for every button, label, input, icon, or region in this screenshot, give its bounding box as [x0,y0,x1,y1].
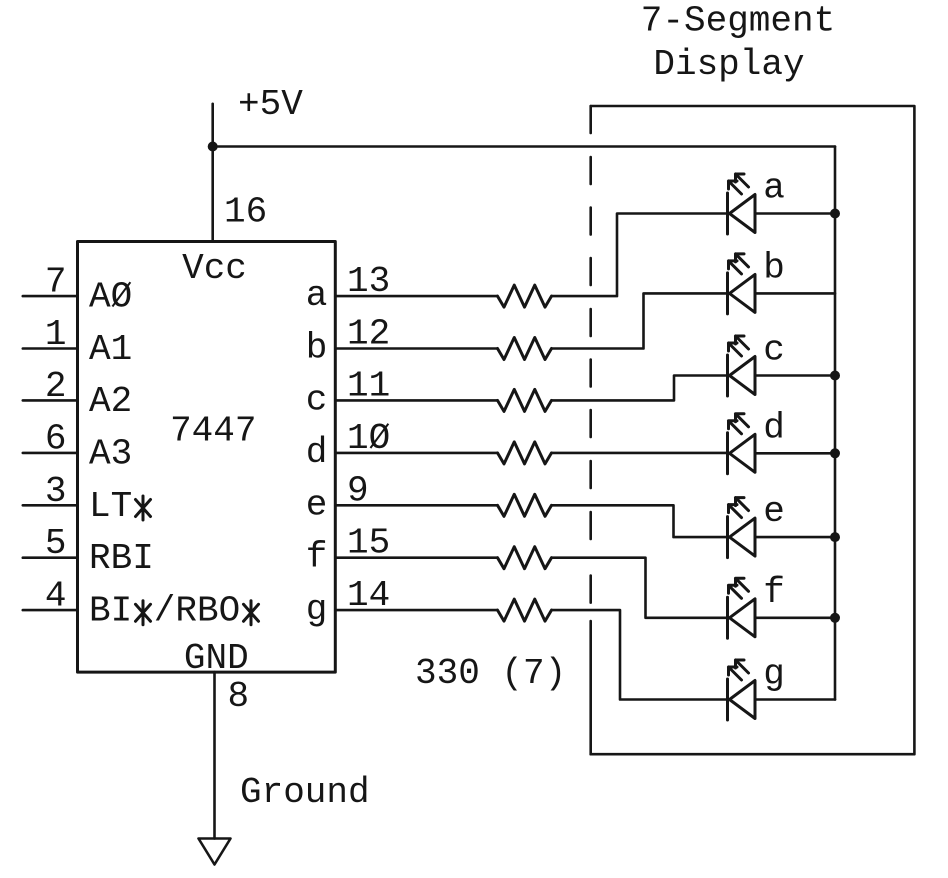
svg-text:11: 11 [347,365,390,406]
svg-text:f: f [763,572,785,613]
resistor 330 ohm (segment g) [498,599,552,621]
wire: GND pin 8 stub [213,672,216,838]
op IC U1 7447 body [78,242,336,673]
wire: output a from IC to resistor [335,295,497,298]
svg-text:Display: Display [653,44,804,85]
svg-text:14: 14 [347,575,390,616]
svg-text:b: b [763,247,785,288]
wire: output b from IC to resistor [335,347,497,350]
junction dot at bus row e [830,532,840,542]
svg-text:a: a [306,275,328,316]
resistor 330 ohm (segment f) [498,547,552,569]
ground symbol (open triangle) [199,839,231,865]
wire: output f from IC to resistor [335,556,497,559]
svg-text:7447: 7447 [170,411,256,452]
svg-text:a: a [763,168,785,209]
wire: LED g anode to bus [755,698,835,701]
svg-text:e: e [763,491,785,532]
wire: input pin 4 (BI*/RBO*) stub [23,609,78,612]
svg-text:5: 5 [45,523,67,564]
wire: input pin 2 (A2) stub [23,399,78,402]
svg-text:+5V: +5V [238,84,303,125]
svg-text:12: 12 [347,314,390,355]
wire: input pin 1 (A1) stub [23,347,78,350]
svg-text:d: d [763,407,785,448]
svg-text:3: 3 [45,471,67,512]
wire: LED f anode to bus [755,616,835,619]
svg-text:g: g [763,654,785,695]
svg-text:9: 9 [347,470,369,511]
svg-text:1Ø: 1Ø [347,418,390,459]
svg-text:8: 8 [228,676,250,717]
wire: LED b anode to bus [755,292,835,295]
LED segment b [728,254,756,314]
svg-text:GND: GND [184,638,249,679]
svg-text:7-Segment: 7-Segment [641,1,835,42]
svg-text:A2: A2 [89,381,132,422]
7-segment display outline (solid top/right/bottom) [591,106,915,754]
wire: output e from IC to resistor [335,504,497,507]
resistor 330 ohm (segment e) [498,494,552,516]
svg-text:6: 6 [45,418,67,459]
resistor 330 ohm (segment b) [498,338,552,360]
resistor 330 ohm (segment a) [498,285,552,307]
svg-text:1: 1 [45,314,67,355]
svg-text:d: d [306,432,328,473]
svg-text:b: b [306,328,328,369]
svg-text:BI /RBO: BI /RBO [89,591,262,632]
resistor 330 ohm (segment d) [498,442,552,464]
wire: LED a anode to bus [755,212,835,215]
wire: anode bus (vertical) [834,147,837,700]
wire: input pin 7 (AØ) stub [23,295,78,298]
junction dot at bus row a [830,209,840,219]
svg-text:16: 16 [224,192,267,233]
junction dot at bus row d [830,448,840,458]
junction dot at bus row c [830,371,840,381]
wire: output c from IC to resistor [335,399,497,402]
svg-text:4: 4 [45,576,67,617]
wire: input pin 6 (A3) stub [23,452,78,455]
wire: output d from IC to resistor [335,452,497,455]
wire: resistor d to LED d [552,452,728,455]
svg-text:Ground: Ground [240,772,370,813]
svg-text:e: e [306,484,328,525]
LED segment f [728,578,756,638]
svg-text:7: 7 [45,262,67,303]
svg-text:330 (7): 330 (7) [415,653,566,694]
svg-text:13: 13 [347,261,390,302]
wire: LED d anode to bus [755,452,835,455]
svg-text:c: c [763,330,785,371]
wire: output g from IC to resistor [335,609,497,612]
LED segment a [728,174,756,234]
wire: resistor c to LED c (jog) [552,376,728,401]
wire: resistor f to LED f (jog) [552,558,728,618]
svg-text:A3: A3 [89,433,132,474]
junction dot at +5V rail [208,142,218,152]
LED segment g [728,660,756,720]
wire: LED e anode to bus [755,536,835,539]
svg-text:Vcc: Vcc [182,248,247,289]
wire: resistor a to LED a (jog) [552,214,728,297]
svg-text:g: g [306,589,328,630]
svg-text:f: f [306,537,328,578]
svg-text:15: 15 [347,523,390,564]
wire: +5V stub to Vcc pin 16 [211,104,214,242]
LED segment e [728,498,756,558]
resistor 330 ohm (segment c) [498,389,552,411]
svg-text:2: 2 [45,366,67,407]
junction dot at bus row f [830,613,840,623]
LED segment c [728,336,756,396]
svg-text:A1: A1 [89,329,132,370]
wire: resistor b to LED b (jog) [552,293,728,348]
wire: LED c anode to bus [755,374,835,377]
svg-text:c: c [306,379,328,420]
wire: resistor g to LED g (jog) [552,610,728,699]
wire: input pin 3 (LT*) stub [23,504,78,507]
svg-text:RBI: RBI [89,538,154,579]
7-segment display boundary (dashed left edge) [589,106,592,754]
LED segment d [728,414,756,474]
svg-text:AØ: AØ [89,277,132,318]
wire: input pin 5 (RBI) stub [23,556,78,559]
wire: resistor e to LED e (jog) [552,505,728,537]
wire: +5V horizontal rail [213,145,835,148]
